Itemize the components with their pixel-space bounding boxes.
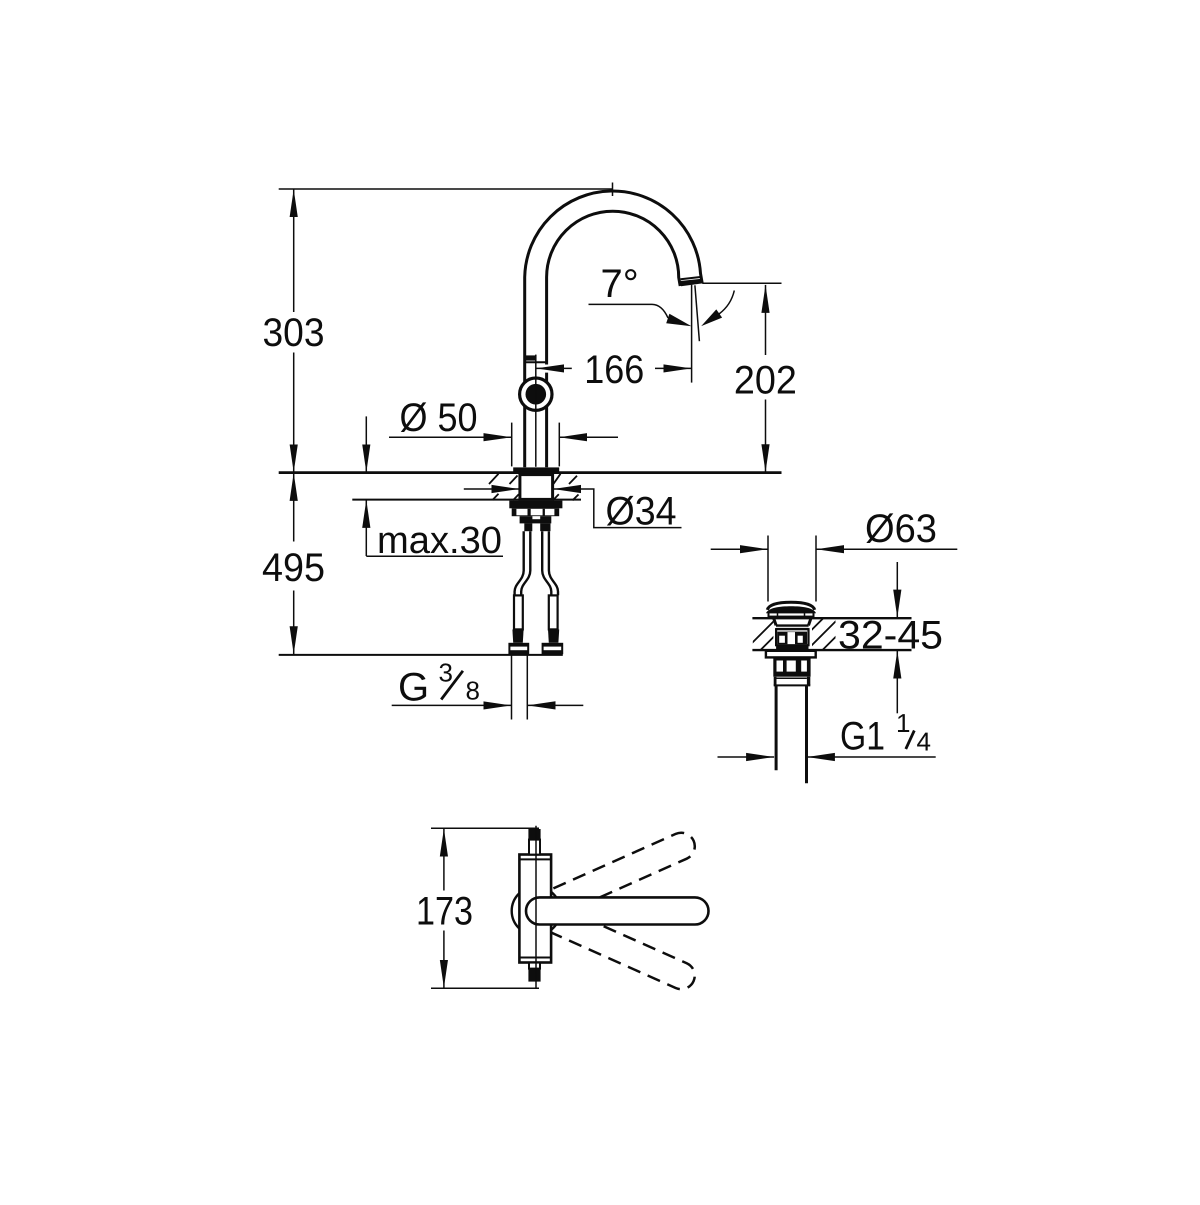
- svg-text:7°: 7°: [601, 262, 639, 306]
- spout joint bar (half section): [526, 355, 536, 360]
- swivel spout dashed position lower: [521, 894, 699, 993]
- bottom reference line (hose ends): [279, 654, 563, 656]
- threaded shank: [520, 475, 553, 500]
- view1 body centerline: [535, 355, 537, 467]
- dimension 202 arrows: [765, 285, 767, 472]
- drain neck: [774, 618, 811, 629]
- dimension 166 arrows: [536, 367, 691, 369]
- drain body lower band: [776, 645, 808, 650]
- drain body below nut: [774, 677, 811, 686]
- svg-text:166: 166: [584, 348, 644, 392]
- faucet body top view: [519, 855, 551, 963]
- 7 degree tilted axis line: [695, 285, 700, 341]
- mounting locknut band 2 with slots: [512, 508, 560, 516]
- handle knob dot: [526, 384, 547, 405]
- dimension 173 arrows: [443, 829, 445, 988]
- bottom stub block: [528, 969, 540, 982]
- dimension Ø34 arrows: [464, 489, 682, 528]
- svg-text:G: G: [398, 666, 429, 710]
- sink deck bottom line: [752, 649, 911, 651]
- deck hatch right: [553, 474, 579, 501]
- swivel hub circle: [512, 887, 561, 936]
- top extension line (spout height ref): [279, 188, 613, 190]
- svg-text:Ø34: Ø34: [606, 489, 677, 533]
- 7 degree arc tail: [719, 291, 734, 315]
- deck underside line right: [553, 499, 581, 501]
- spout inner profile (right pipe edge upper + gooseneck inner arc): [547, 211, 681, 364]
- dimension Ø50 arrows: [389, 436, 618, 438]
- drain body window: [776, 629, 808, 645]
- hose end valve bodies: [512, 630, 559, 643]
- hose nuts: [524, 523, 550, 531]
- hose end connectors: [514, 595, 558, 629]
- handle knob outer ring: [520, 378, 552, 410]
- dimension G3/8 label: [398, 657, 480, 709]
- svg-text:173: 173: [416, 889, 473, 933]
- dimension G3/8 arrows: [392, 704, 584, 706]
- spout outer profile (left pipe edge + gooseneck outer arc): [525, 191, 703, 467]
- 7 degree right arrowhead: [701, 309, 722, 326]
- angle 7 degree label: [601, 262, 639, 306]
- 202 extension line: [702, 282, 781, 284]
- spout solid position: [526, 897, 709, 924]
- svg-text:Ø63: Ø63: [865, 507, 937, 551]
- svg-text:G1: G1: [840, 715, 885, 759]
- flexible hoses: [515, 531, 558, 595]
- dimension G1 1/4 arrows: [718, 756, 936, 758]
- dimension 173 label: [416, 889, 473, 933]
- spout outlet bottom band (aerator): [680, 279, 702, 287]
- dimension 303 label: [263, 311, 325, 355]
- view3 centerline: [535, 826, 537, 989]
- bottom stub: [529, 963, 540, 969]
- spout outlet face line: [681, 277, 701, 279]
- drain cap dome band: [766, 606, 816, 613]
- svg-text:Ø 50: Ø 50: [400, 396, 478, 440]
- dimension max.30 label: [377, 520, 502, 562]
- dimension 32-45 label: [838, 614, 943, 658]
- 166 extension line (stream vertical): [691, 285, 693, 383]
- 7 degree leader: [589, 304, 669, 318]
- spout right pipe edge lower segment: [545, 373, 548, 468]
- svg-text:4: 4: [917, 727, 931, 757]
- svg-text:495: 495: [262, 546, 325, 590]
- arc apex tick: [612, 183, 614, 197]
- dimension 303 line: [293, 189, 295, 472]
- svg-text:32-45: 32-45: [838, 614, 943, 658]
- dimension Ø50 label: [400, 396, 478, 440]
- drain flange under deck: [766, 651, 816, 658]
- drain locknut: [773, 658, 810, 674]
- Ø50 extension lines: [512, 423, 560, 467]
- dimension 495 line: [293, 473, 295, 654]
- drain tailpipe: [776, 685, 806, 783]
- svg-text:202: 202: [734, 359, 797, 403]
- deck top line: [279, 471, 782, 474]
- drain cap dome top arc: [767, 602, 814, 610]
- dimension 166 label: [584, 348, 644, 392]
- hose nipple band: [520, 516, 552, 523]
- top reference line: [431, 827, 539, 829]
- deck underside line left: [352, 499, 519, 501]
- drain cap skirt: [769, 612, 814, 616]
- dimension G1 1/4 label: [840, 708, 931, 759]
- swivel spout dashed position upper: [521, 828, 699, 927]
- dimension max.30 arrows: [366, 416, 503, 556]
- dimension 32-45 arrows: [896, 562, 898, 713]
- svg-text:1: 1: [896, 708, 910, 738]
- top stub block: [528, 829, 540, 840]
- hose end flanges: [508, 643, 563, 654]
- dimension Ø63 arrows: [711, 548, 958, 550]
- sink deck top line: [752, 617, 911, 619]
- body cap seam lines: [519, 859, 551, 957]
- mounting locknut band 1: [509, 501, 562, 509]
- G3/8 extension lines: [512, 655, 528, 720]
- svg-text:max.30: max.30: [377, 520, 502, 562]
- dimension Ø63 label: [865, 507, 937, 551]
- Ø63 extension lines: [768, 536, 816, 602]
- escutcheon flange: [513, 467, 559, 472]
- bottom reference line: [431, 987, 539, 989]
- dimension 495 label: [262, 546, 325, 590]
- deck hatch left: [489, 474, 519, 501]
- svg-text:303: 303: [263, 311, 325, 355]
- sink deck hatch: [745, 618, 855, 650]
- top stub: [529, 840, 540, 855]
- dimension Ø34 label: [606, 489, 677, 533]
- svg-text:3: 3: [439, 657, 453, 687]
- dimension 202 label: [734, 359, 797, 403]
- spout joint line: [526, 361, 546, 363]
- svg-text:8: 8: [466, 676, 480, 706]
- 7 degree left arrowhead: [666, 314, 691, 327]
- drain locknut lower band: [773, 674, 810, 677]
